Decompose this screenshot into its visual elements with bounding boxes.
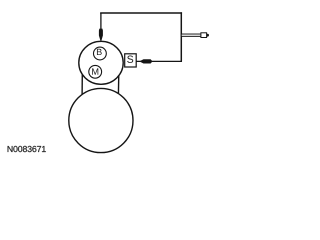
terminal S box [125, 54, 137, 67]
drive housing neck left line [81, 74, 83, 96]
drive housing neck right line [117, 73, 119, 95]
terminal B circle [94, 47, 107, 60]
starter motor body circle [69, 88, 133, 152]
wire: vertical drop toward B terminal [100, 13, 102, 30]
terminal B letter [97, 49, 102, 55]
wire: top horizontal run [100, 12, 182, 14]
terminal M letter [92, 68, 98, 74]
connector lead body [201, 33, 207, 38]
solenoid circle [79, 41, 123, 84]
wire: right vertical run [180, 12, 182, 61]
arrow into S terminal [139, 59, 152, 63]
figure number label [8, 146, 46, 152]
wire: bottom horizontal run to S terminal [136, 60, 182, 62]
arrow into B terminal [99, 29, 103, 43]
terminal M circle [89, 65, 102, 78]
connector lead tip [207, 34, 209, 37]
terminal S letter [127, 55, 133, 62]
connector lead cable [181, 34, 201, 36]
